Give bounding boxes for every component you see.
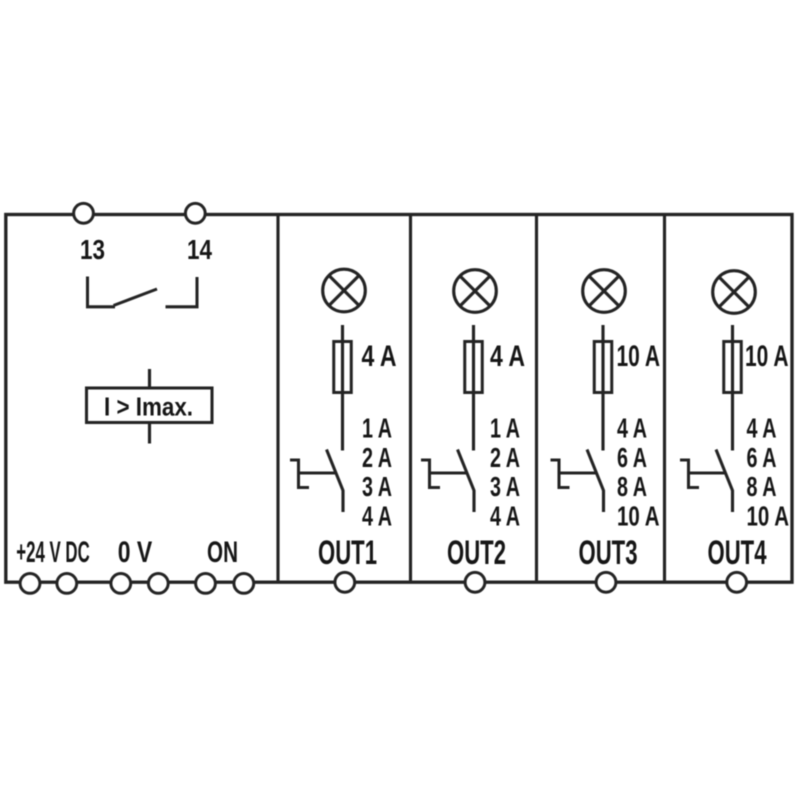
svg-text:ON: ON: [207, 536, 238, 569]
svg-text:OUT2: OUT2: [447, 534, 506, 572]
switch S3 manual actuator: [551, 460, 570, 488]
switch S2 blade: [458, 450, 475, 491]
terminal OUT4: [727, 572, 747, 592]
terminal 14: [185, 203, 205, 223]
svg-text:6 A: 6 A: [747, 442, 777, 473]
switch S1 manual actuator: [290, 460, 309, 488]
svg-text:4 A: 4 A: [490, 500, 520, 531]
terminal ON b: [234, 574, 254, 594]
lamp L4: [713, 271, 756, 314]
switch S1 blade: [327, 450, 344, 491]
wire below switch S1: [341, 490, 344, 512]
terminal +24VDC b: [57, 574, 77, 594]
svg-text:10 A: 10 A: [617, 340, 661, 373]
wire divider OUT1/OUT2: [409, 216, 412, 581]
terminal OUT3: [596, 572, 616, 592]
terminal 13: [74, 203, 94, 223]
svg-text:OUT4: OUT4: [708, 534, 767, 572]
svg-text:OUT3: OUT3: [579, 534, 638, 572]
terminal +24VDC a: [20, 574, 40, 594]
svg-text:2 A: 2 A: [362, 442, 392, 473]
wire below switch S2: [472, 490, 475, 512]
svg-text:2 A: 2 A: [490, 442, 520, 473]
svg-text:10 A: 10 A: [747, 500, 790, 531]
svg-text:0 V: 0 V: [118, 536, 153, 569]
svg-text:+24 V DC: +24 V DC: [16, 536, 90, 569]
fuse F4: [724, 342, 742, 393]
switch S3 blade: [587, 450, 604, 491]
svg-text:OUT1: OUT1: [318, 534, 377, 572]
svg-text:3 A: 3 A: [490, 471, 520, 502]
lamp L1: [323, 269, 366, 312]
fuse F1: [334, 342, 352, 393]
wire lamp to switch OUT2: [472, 325, 475, 451]
fuse F3: [594, 342, 612, 393]
svg-text:I > Imax.: I > Imax.: [104, 392, 193, 422]
overcurrent trip box I>Imax: [87, 388, 213, 423]
terminal 0V a: [111, 574, 131, 594]
switch S3 actuator link: [559, 471, 596, 474]
svg-text:4 A: 4 A: [362, 500, 392, 531]
lamp L3: [583, 270, 626, 313]
switch S4 blade: [716, 450, 733, 491]
fuse F2: [465, 342, 483, 393]
svg-text:14: 14: [187, 234, 212, 265]
svg-text:4 A: 4 A: [490, 340, 525, 373]
switch S2 actuator link: [430, 471, 467, 474]
wire below switch S4: [731, 490, 734, 512]
enclosure outline: [6, 215, 792, 583]
svg-text:4 A: 4 A: [747, 413, 777, 444]
relay contact 13-14 left lead: [88, 277, 116, 307]
relay contact 13-14 blade: [114, 289, 158, 306]
wire divider OUT2/OUT3: [535, 216, 538, 581]
wire divider section1/OUT1: [276, 216, 279, 581]
switch S4 manual actuator: [680, 460, 699, 488]
wire lamp to switch OUT3: [601, 325, 604, 451]
switch S4 actuator link: [689, 471, 726, 474]
wire above I>Imax box: [148, 369, 151, 388]
lamp L2: [454, 270, 497, 313]
svg-text:6 A: 6 A: [617, 442, 647, 473]
svg-text:10 A: 10 A: [617, 500, 660, 531]
svg-text:4 A: 4 A: [617, 413, 647, 444]
svg-text:13: 13: [80, 234, 105, 265]
switch S2 manual actuator: [421, 460, 440, 488]
terminal 0V b: [148, 574, 168, 594]
svg-text:1 A: 1 A: [362, 413, 392, 444]
wire below I>Imax box: [148, 423, 151, 444]
relay contact 13-14 right lead: [166, 277, 198, 307]
svg-text:8 A: 8 A: [617, 471, 647, 502]
wire divider OUT3/OUT4: [663, 216, 666, 581]
svg-text:1 A: 1 A: [490, 413, 520, 444]
wire lamp to switch OUT1: [341, 325, 344, 451]
wire below switch S3: [602, 490, 605, 512]
wire lamp to switch OUT4: [731, 325, 734, 451]
terminal OUT2: [465, 572, 485, 592]
svg-text:4 A: 4 A: [362, 340, 397, 373]
svg-text:10 A: 10 A: [745, 340, 789, 373]
svg-text:8 A: 8 A: [747, 471, 777, 502]
switch S1 actuator link: [299, 471, 336, 474]
terminal OUT1: [335, 572, 355, 592]
svg-text:3 A: 3 A: [362, 471, 392, 502]
terminal ON a: [196, 574, 216, 594]
